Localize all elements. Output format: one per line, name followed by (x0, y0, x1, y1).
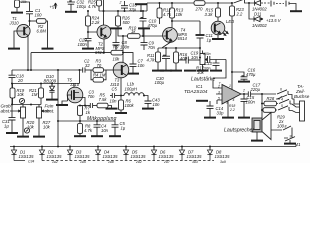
svg-text:1SS135: 1SS135 (19, 154, 35, 159)
svg-text:4.7k: 4.7k (84, 128, 93, 133)
svg-text:3µ9: 3µ9 (220, 160, 226, 163)
svg-text:1µ: 1µ (4, 123, 9, 128)
svg-text:4.7k: 4.7k (163, 12, 172, 17)
svg-text:J310: J310 (9, 21, 20, 26)
svg-text:10k: 10k (21, 0, 27, 4)
svg-text:100µ: 100µ (77, 4, 87, 9)
svg-text:1k: 1k (86, 110, 91, 115)
svg-text:2: 2 (217, 85, 220, 89)
svg-text:100n: 100n (120, 45, 130, 50)
svg-text:32: 32 (85, 63, 90, 68)
svg-text:R9: R9 (113, 45, 119, 50)
svg-text:100k: 100k (125, 103, 135, 108)
svg-text:470µ: 470µ (148, 23, 158, 28)
svg-text:10n: 10n (101, 128, 109, 133)
svg-text:1SS135: 1SS135 (75, 154, 91, 159)
svg-text:2µ2: 2µ2 (135, 160, 142, 163)
svg-text:10k: 10k (113, 56, 121, 61)
svg-text:10k: 10k (176, 12, 184, 17)
svg-text:2.2: 2.2 (236, 11, 243, 16)
svg-text:TDA2S104: TDA2S104 (184, 89, 208, 95)
svg-text:1µ8: 1µ8 (108, 160, 114, 163)
svg-text:70n: 70n (88, 94, 96, 99)
svg-text:C5: C5 (112, 87, 118, 92)
svg-text:3µ3: 3µ3 (192, 160, 198, 163)
svg-text:2.2: 2.2 (229, 108, 235, 112)
svg-text:3.3k: 3.3k (205, 12, 214, 17)
svg-text:4: 4 (233, 98, 235, 102)
svg-text:70: 70 (97, 63, 102, 68)
svg-text:10n: 10n (138, 63, 146, 68)
svg-text:100n: 100n (203, 66, 211, 70)
svg-text:J310: J310 (69, 82, 80, 87)
svg-text:10k: 10k (43, 124, 51, 129)
svg-text:2.2k: 2.2k (91, 20, 101, 25)
svg-text:6514: 6514 (95, 50, 105, 55)
svg-text:R4: R4 (93, 73, 99, 78)
svg-text:1SS135: 1SS135 (103, 154, 119, 159)
svg-text:C34: C34 (28, 160, 34, 163)
svg-text:D11: D11 (254, 12, 261, 17)
svg-text:+13.5 V: +13.5 V (266, 18, 282, 23)
svg-text:6.8M: 6.8M (37, 28, 47, 33)
svg-text:100n: 100n (78, 42, 88, 47)
svg-text:400: 400 (180, 56, 188, 61)
svg-text:1µ5: 1µ5 (80, 160, 86, 163)
svg-text:100µH: 100µH (125, 86, 138, 91)
svg-text:1N4002: 1N4002 (252, 23, 267, 28)
svg-text:10n: 10n (110, 98, 118, 103)
svg-text:2µ7: 2µ7 (163, 160, 170, 163)
svg-text:100: 100 (35, 13, 43, 18)
svg-text:abst.: abst. (1, 108, 11, 113)
svg-text:1µ: 1µ (207, 37, 212, 42)
svg-text:70n: 70n (148, 45, 156, 50)
svg-text:Mitkopplung: Mitkopplung (87, 116, 117, 122)
svg-text:470µ: 470µ (246, 72, 256, 77)
svg-text:J1: J1 (295, 142, 300, 147)
svg-text:1: 1 (229, 84, 231, 88)
svg-text:1SS135: 1SS135 (47, 154, 63, 159)
svg-text:10n: 10n (153, 102, 161, 107)
svg-text:7.5k: 7.5k (99, 97, 108, 102)
svg-text:IC1: IC1 (196, 84, 203, 89)
svg-text:3: 3 (218, 91, 220, 95)
svg-text:1µ: 1µ (121, 126, 126, 131)
svg-text:5: 5 (281, 104, 283, 108)
svg-text:BB209: BB209 (44, 79, 57, 84)
svg-text:220µ: 220µ (250, 87, 261, 92)
svg-text:1µ2: 1µ2 (52, 160, 58, 163)
svg-text:2: 2 (242, 88, 245, 92)
svg-text:100n: 100n (203, 52, 211, 56)
svg-text:20: 20 (17, 78, 23, 83)
svg-text:33µ: 33µ (129, 7, 137, 12)
svg-text:10n: 10n (191, 55, 199, 60)
svg-text:1M: 1M (100, 73, 106, 78)
svg-text:Buchse: Buchse (294, 94, 310, 99)
svg-text:4.7k: 4.7k (88, 4, 97, 9)
svg-text:100: 100 (277, 123, 285, 128)
svg-text:9: 9 (290, 135, 292, 139)
svg-text:9: 9 (226, 100, 228, 104)
svg-text:100n: 100n (246, 99, 256, 104)
svg-text:5: 5 (218, 97, 220, 101)
svg-text:1SS135: 1SS135 (131, 154, 147, 159)
svg-text:270: 270 (195, 7, 204, 12)
svg-text:R28: R28 (267, 96, 275, 101)
svg-text:Lautstärke: Lautstärke (191, 77, 215, 83)
svg-text:10k: 10k (197, 70, 205, 75)
svg-text:1M: 1M (32, 92, 38, 97)
svg-text:6: 6 (280, 88, 282, 92)
svg-text:8: 8 (285, 125, 287, 129)
svg-text:100µ: 100µ (155, 80, 165, 85)
svg-text:2: 2 (119, 0, 122, 4)
svg-text:1SS135: 1SS135 (187, 154, 203, 159)
svg-text:4.7k: 4.7k (147, 57, 156, 62)
svg-text:10k: 10k (17, 92, 25, 97)
svg-text:4: 4 (281, 97, 283, 101)
svg-text:Lautsprecher: Lautsprecher (224, 128, 255, 134)
svg-text:500: 500 (123, 20, 131, 25)
svg-text:10k: 10k (27, 124, 35, 129)
svg-text:abst.: abst. (45, 108, 55, 113)
svg-text:LED: LED (226, 19, 234, 24)
svg-text:33p: 33p (217, 110, 225, 115)
svg-text:1SS135: 1SS135 (215, 154, 231, 159)
svg-text:1SS135: 1SS135 (159, 154, 175, 159)
svg-text:+5V: +5V (50, 5, 59, 10)
svg-text:6514: 6514 (178, 36, 188, 41)
